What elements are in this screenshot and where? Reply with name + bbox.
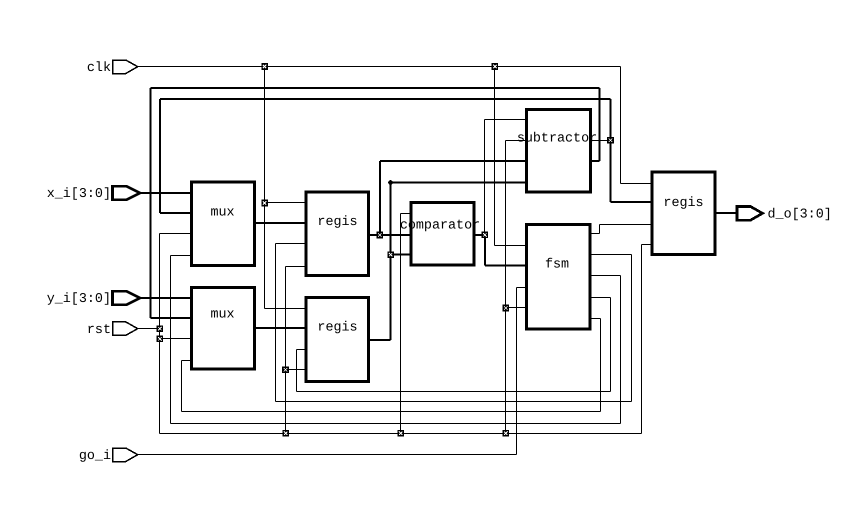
junction regis2_out branch to comparator — [387, 251, 394, 258]
wire rst vertical x=159.5 — [159, 234, 161, 434]
net fsm_en3 : fsm pin to regis2 pin3 — [589, 297, 611, 299]
svg-text:comparator: comparator — [400, 219, 480, 234]
net mux2_out bus to regis2 pin2 — [255, 327, 307, 329]
svg-text:clk: clk — [87, 61, 111, 76]
wire clk into fsm pin1 — [495, 245, 527, 247]
node regis2_out corner dot — [388, 180, 393, 185]
wire sub_out top run y=99 — [160, 98, 611, 100]
wire rst into subtractor pin2 — [506, 140, 527, 142]
junction clk tap A — [261, 63, 268, 70]
port go_i — [113, 448, 138, 462]
wire sub_out left riser x=160 — [159, 99, 161, 213]
net regis1_out bus to comparator pin2 — [369, 234, 412, 236]
wire fsm_en3 left riser x=296.5 — [296, 350, 298, 392]
junction comparator_out tee — [482, 232, 489, 239]
svg-text:subtractor: subtractor — [517, 132, 597, 147]
regis U4 — [306, 298, 369, 382]
wire fsm_sel1 left riser x=170.5 — [170, 256, 172, 424]
net d_o bus from regis3 to output port — [715, 212, 737, 214]
junction rst bus at x=400.7 — [397, 430, 404, 437]
wire fsm_sel2 right riser x=600.5 — [600, 319, 602, 412]
svg-text:fsm: fsm — [545, 258, 569, 273]
wire fsm_en2 bottom run y=401.5 — [276, 401, 632, 403]
mux U1 — [192, 182, 255, 266]
svg-text:regis: regis — [317, 321, 357, 336]
wire fsm_en1 riser — [599, 225, 601, 234]
wire fsm_en2 left riser x=275.5 — [275, 244, 277, 402]
wire fsm_en1 into regis3 pin3 — [600, 224, 653, 226]
wire sub_out vertical x=610.5 — [609, 99, 611, 202]
wire go_i into fsm pin3 — [517, 287, 527, 289]
wire comparator_out into subtractor pin1 — [485, 119, 527, 121]
wire rst riser to regis3 pin4 — [641, 245, 643, 434]
wire rst riser at x=285.5 to regis1 pin4 — [285, 267, 287, 434]
svg-text:mux: mux — [210, 308, 234, 323]
wire rst into regis3 pin4 — [642, 244, 653, 246]
regis U8 — [652, 172, 715, 255]
svg-text:go_i: go_i — [79, 449, 111, 464]
net fsm_en2 : fsm pin to regis1 pin3 — [589, 254, 632, 256]
junction rst bus at x=285.7 — [282, 430, 289, 437]
wire sub_out into mux1 pin2 — [160, 212, 192, 214]
wire fsm_sel2 left riser x=181.5 — [181, 361, 183, 412]
fsm U7 — [527, 225, 591, 330]
wire comparator_out riser up to subtractor pin1 — [484, 120, 486, 236]
svg-text:regis: regis — [317, 215, 357, 230]
wire rst bottom bus y=433.5 — [160, 433, 642, 435]
wire regis2_out into subtractor pin4 — [391, 181, 527, 183]
wire clk down at x=620.5 — [620, 67, 622, 184]
wire rst riser at x=400.5 to comparator pin1 — [400, 214, 402, 434]
junction regis1_out branch — [377, 232, 384, 239]
wire sub_fb left riser x=150.5 — [149, 88, 151, 318]
port d_o[3:0] — [737, 207, 763, 221]
junction rst to mux2 — [157, 336, 164, 343]
net rst : stub from port to vertical — [138, 328, 160, 330]
junction rst to fsm pin4 — [503, 305, 510, 312]
wire regis2_out into comparator pin3 — [391, 253, 412, 255]
wire fsm_en3 right riser x=610.5 — [610, 298, 612, 392]
mux U2 — [192, 288, 255, 370]
net clk : horizontal trunk from clk port — [138, 66, 621, 68]
wire regis2_out riser x=390.5 — [389, 183, 391, 341]
junction clk to regis1 — [261, 200, 268, 207]
subtractor U6 — [527, 110, 591, 193]
wire fsm_en3 bottom run y=391.5 — [297, 391, 611, 393]
net mux1_out bus to regis1 pin2 — [255, 222, 307, 224]
wire fsm_sel2 into mux2 pin4 — [182, 360, 192, 362]
wire clk into regis3 pin1 — [621, 183, 653, 185]
junction rst to regis2 — [282, 367, 289, 374]
port clk — [113, 60, 138, 74]
wire sub_out into regis3 pin2 — [611, 201, 653, 203]
wire fsm_sel1 into mux1 pin4 — [171, 255, 192, 257]
net fsm_en1 : fsm pin to regis3 pin3 — [589, 233, 600, 235]
port x_i[3:0] — [113, 186, 140, 200]
wire sub_fb into subtractor right pin — [591, 160, 600, 162]
wire fsm_en3 into regis2 pin3 — [297, 349, 307, 351]
wire clk into regis1 pin1 — [265, 202, 307, 204]
net fsm_sel2 : fsm pin to mux2 pin4 — [589, 318, 601, 320]
net fsm_sel1 : fsm pin to mux1 pin4 — [589, 275, 621, 277]
wire rst into mux1 pin3 — [160, 233, 192, 235]
net regis2_out bus from regis2 — [369, 339, 391, 341]
port rst — [113, 322, 138, 336]
svg-text:d_o[3:0]: d_o[3:0] — [768, 208, 832, 223]
wire rst into regis2 pin4 — [286, 369, 307, 371]
comparator U5 — [411, 203, 474, 266]
wire clk tap down at x=264.5 — [264, 67, 266, 309]
net y_i bus into mux2 pin1 — [141, 297, 192, 299]
wire rst into fsm pin4 — [506, 307, 527, 309]
junction clk tap B — [492, 63, 499, 70]
net sub_fb : loop into mux2 pin2 — [151, 317, 192, 319]
wire clk into regis2 pin1 — [265, 308, 307, 310]
wire regis1_out branch up at x=380 — [379, 161, 381, 235]
wire sub_fb right riser x=599.5 — [598, 88, 600, 161]
wire fsm_sel1 bottom run y=423.5 — [171, 423, 621, 425]
wire comparator_out into fsm pin2 — [485, 265, 527, 267]
net sub_out : subtractor output stub — [591, 140, 611, 142]
wire fsm_en2 into regis1 pin3 — [276, 243, 307, 245]
net x_i bus into mux1 pin1 — [141, 192, 192, 194]
junction sub_out tee — [607, 137, 614, 144]
wire fsm_sel2 bottom run y=411.5 — [182, 411, 601, 413]
svg-text:regis: regis — [663, 196, 703, 211]
net go_i : horizontal from port — [138, 454, 517, 456]
junction rst bus at x=505.8 — [503, 430, 510, 437]
wire clk tap down at x=494.5 — [494, 67, 496, 246]
svg-text:y_i[3:0]: y_i[3:0] — [47, 292, 111, 307]
wire go_i riser x=516.5 — [516, 288, 518, 455]
wire regis1_out into subtractor pin3 — [380, 160, 527, 162]
wire rst into mux2 pin3 — [160, 338, 192, 340]
wire rst riser at x=505.5 — [505, 141, 507, 434]
regis U3 — [306, 192, 369, 276]
junction rst port tee — [157, 325, 164, 332]
wire fsm_sel1 right riser x=620.5 — [620, 276, 622, 424]
wire sub_fb top run y=88 — [151, 87, 600, 89]
svg-text:mux: mux — [210, 206, 234, 221]
wire rst into regis1 pin4 — [286, 266, 307, 268]
wire comparator_out down to fsm pin2 — [484, 235, 486, 266]
port y_i[3:0] — [113, 291, 140, 305]
wire fsm_en2 right riser x=631.5 — [631, 255, 633, 402]
wire rst into comparator pin1 — [401, 213, 412, 215]
svg-text:rst: rst — [87, 323, 111, 338]
net comparator_out to junction — [474, 234, 485, 236]
svg-text:x_i[3:0]: x_i[3:0] — [47, 187, 111, 202]
